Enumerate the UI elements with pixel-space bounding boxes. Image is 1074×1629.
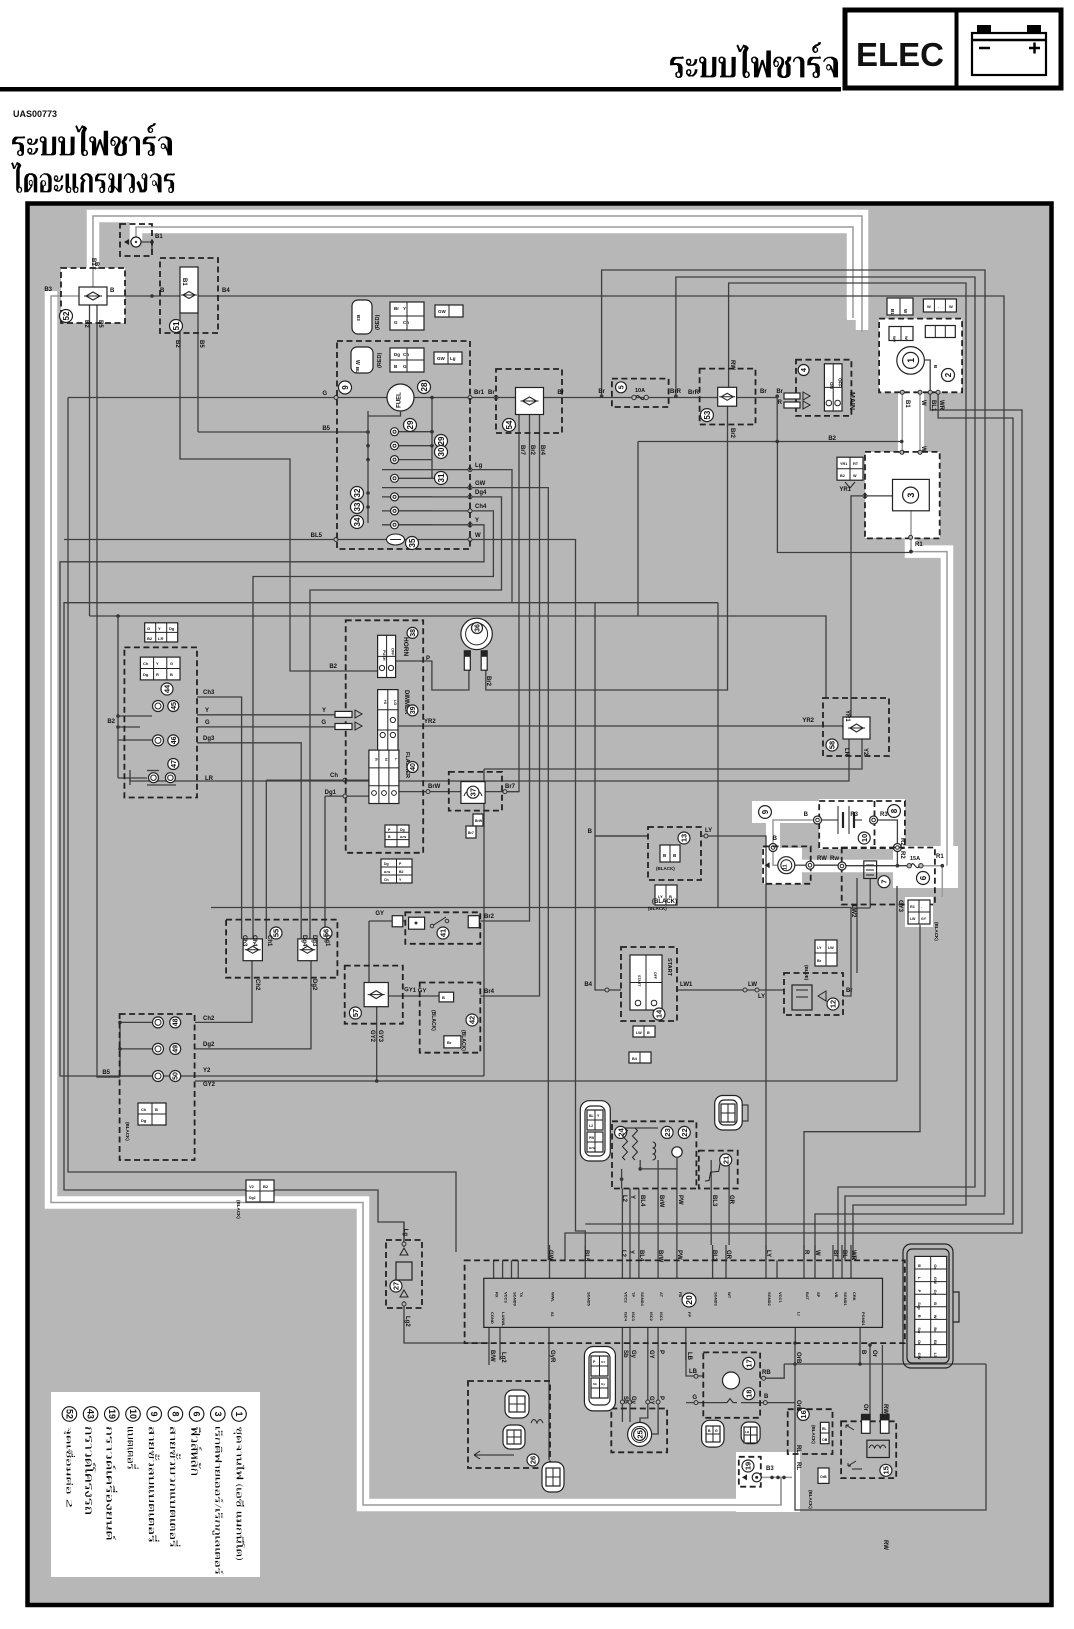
svg-text:OFF: OFF — [391, 648, 395, 656]
svg-text:Ch: Ch — [141, 1107, 147, 1112]
wire RW starter — [795, 864, 806, 866]
wire fuel senders to bus — [399, 431, 432, 433]
svg-text:BL4: BL4 — [639, 1195, 645, 1207]
svg-text:R1: R1 — [936, 854, 944, 860]
battery icon - mark — [979, 47, 990, 50]
wire 24 internals — [625, 1127, 658, 1129]
svg-text:B2: B2 — [399, 870, 404, 874]
svg-text:TP: TP — [631, 1292, 636, 1297]
wire GY2 bus — [195, 1080, 897, 1082]
svg-text:R: R — [803, 1250, 809, 1255]
meter lamp 45 — [153, 701, 164, 712]
wire fuel to senders — [368, 411, 401, 416]
sensor resistors 24 — [623, 1128, 628, 1160]
diode block 54 — [496, 369, 562, 433]
wire Br2 54 down — [480, 415, 529, 922]
oval connector BG — [702, 1420, 724, 1447]
svg-text:Br1: Br1 — [474, 390, 485, 396]
svg-text:BL: BL — [355, 367, 360, 373]
highlight patch: negative lead down — [766, 806, 780, 852]
wire B2 under 51 to horn — [180, 313, 378, 671]
svg-text:(BLACK): (BLACK) — [236, 1200, 241, 1219]
main switch grid — [824, 364, 842, 411]
svg-text:(BLACK): (BLACK) — [934, 922, 939, 941]
svg-text:Br2: Br2 — [729, 428, 735, 439]
wire relay7 down — [869, 879, 871, 909]
svg-text:Ch2: Ch2 — [203, 1016, 215, 1022]
svg-text:Dg: Dg — [141, 1118, 147, 1123]
wire W BL5 row — [64, 540, 585, 1261]
wire long y552 left — [777, 442, 911, 553]
wire B2 under 52 — [89, 305, 91, 616]
svg-text:Br: Br — [394, 306, 399, 311]
legend entry 19 (Thai) — [106, 1427, 117, 1540]
meter lamp 50 — [153, 1071, 164, 1082]
svg-text:B/W: B/W — [489, 1350, 495, 1362]
svg-text:PW: PW — [676, 1250, 682, 1260]
svg-text:38: 38 — [410, 629, 417, 637]
svg-text:GY3: GY3 — [377, 1030, 383, 1043]
battery icon body — [972, 33, 1046, 75]
svg-text:R1: R1 — [915, 542, 923, 548]
circled 8 — [888, 805, 901, 818]
wire G fuel gauge — [68, 397, 387, 399]
subtitle (Thai) ไดอะแกรมวงจร — [11, 162, 175, 193]
svg-text:52: 52 — [64, 1409, 74, 1419]
wire left staircase G — [68, 398, 456, 1253]
svg-text:Y2: Y2 — [862, 748, 868, 756]
coil WW 26 — [531, 1420, 543, 1424]
wire bus y907 — [211, 907, 851, 909]
svg-text:29: 29 — [406, 420, 415, 429]
svg-text:R2: R2 — [899, 851, 905, 859]
ring terminal R3 — [870, 816, 878, 824]
svg-text:Ch: Ch — [384, 878, 389, 882]
svg-text:WT: WT — [727, 1292, 732, 1299]
svg-text:(RED): (RED) — [377, 353, 383, 368]
fuel meter 25 — [628, 1422, 652, 1446]
circled 9 meter — [339, 381, 352, 394]
svg-text:20: 20 — [684, 1295, 694, 1305]
junction 52 box — [61, 268, 125, 323]
wire G dimmer — [197, 726, 335, 728]
svg-text:23: 23 — [663, 1128, 672, 1136]
svg-text:Br: Br — [933, 1327, 938, 1332]
svg-text:51: 51 — [172, 321, 181, 330]
svg-text:Y: Y — [158, 626, 161, 631]
wire B5 fuel — [198, 431, 368, 433]
svg-text:GW: GW — [475, 481, 486, 487]
relay 15 arrows — [846, 1425, 854, 1430]
svg-text:G: G — [715, 1429, 718, 1433]
svg-text:Gy: Gy — [933, 1290, 938, 1296]
svg-text:GY2: GY2 — [369, 1030, 375, 1043]
svg-text:54: 54 — [505, 420, 514, 429]
top connector small — [435, 305, 463, 317]
legend entry 8 (Thai) — [170, 1427, 181, 1547]
connector below 14 — [633, 1026, 655, 1037]
wire OrB LI column — [795, 1343, 986, 1510]
fuel gauge — [387, 384, 414, 411]
wire GY3 57 down — [376, 1007, 378, 1081]
meter connector grid — [390, 348, 424, 372]
relay box 16 — [788, 1409, 833, 1454]
highlight trace: second top line — [136, 227, 853, 318]
circled 9 battery lead — [759, 806, 772, 819]
wire B1 magneto down — [901, 392, 903, 452]
turn switch assy 44 box — [124, 647, 197, 797]
svg-text:SGND4: SGND4 — [640, 1292, 645, 1307]
svg-text:L2: L2 — [620, 1250, 626, 1258]
svg-text:GY3: GY3 — [897, 900, 903, 913]
svg-text:GY: GY — [648, 1350, 654, 1359]
svg-text:Y: Y — [322, 708, 326, 714]
passing switch 41 box — [405, 912, 480, 944]
wire riser x601 to right bus — [602, 270, 985, 1260]
svg-text:Br7: Br7 — [468, 831, 474, 835]
wire Y dimmer — [197, 714, 335, 716]
svg-text:YR1: YR1 — [840, 462, 847, 466]
flasher switch grid — [369, 750, 399, 803]
horn terminals — [464, 651, 470, 670]
wire WR magneto — [585, 392, 1013, 1224]
svg-text:29: 29 — [437, 436, 446, 445]
meter lamp 49 — [153, 1043, 164, 1054]
svg-text:25: 25 — [635, 1430, 644, 1438]
svg-text:Lg: Lg — [402, 1229, 408, 1237]
svg-text:RT: RT — [853, 462, 859, 466]
svg-text:BrW: BrW — [400, 835, 406, 839]
svg-text:W: W — [920, 400, 926, 406]
connector GyR oval — [542, 1462, 564, 1492]
svg-text:Br: Br — [447, 1040, 452, 1045]
connector below 48 grid1 — [138, 1103, 166, 1125]
svg-text:24: 24 — [616, 1127, 625, 1136]
wire Y fuel — [60, 525, 484, 1076]
highlight patch: junction 52 box — [61, 268, 125, 323]
svg-text:(BLACK): (BLACK) — [656, 866, 675, 871]
svg-text:WY: WY — [892, 336, 897, 343]
svg-text:BrW: BrW — [589, 1146, 595, 1150]
wire B2 into regulator — [638, 441, 902, 443]
svg-text:WWL: WWL — [551, 1292, 556, 1303]
wire B row 1364 — [784, 1363, 986, 1365]
svg-text:Or: Or — [871, 1350, 877, 1358]
ring terminal B frame — [769, 844, 777, 852]
svg-text:B3: B3 — [44, 287, 52, 293]
svg-text:Lg: Lg — [475, 463, 483, 469]
magneto connector WRWL — [925, 326, 955, 338]
svg-text:Gy: Gy — [601, 1382, 605, 1386]
magneto connector WL — [923, 299, 956, 312]
wire Br main bus — [414, 397, 777, 399]
svg-text:28: 28 — [420, 382, 429, 391]
wire ECU bottom pins — [488, 1327, 490, 1343]
svg-text:Gy: Gy — [630, 1396, 636, 1405]
svg-text:W: W — [927, 304, 931, 309]
svg-text:WR: WR — [850, 1250, 856, 1261]
svg-text:Br2: Br2 — [485, 676, 491, 687]
svg-text:G: G — [394, 320, 398, 325]
svg-text:Br: Br — [832, 1250, 838, 1257]
svg-text:GW: GW — [437, 356, 446, 361]
svg-text:B: B — [588, 829, 593, 835]
svg-text:PGND1: PGND1 — [861, 1312, 866, 1327]
legend entry 9 (Thai) — [149, 1427, 160, 1542]
AC magneto 1 — [897, 347, 925, 375]
svg-text:MAIN: MAIN — [848, 392, 855, 410]
diode block 57 box — [345, 966, 403, 1024]
svg-text:G: G — [170, 661, 173, 666]
magneto connector WYW — [889, 327, 913, 341]
svg-text:BrW: BrW — [428, 784, 441, 790]
svg-text:57: 57 — [351, 1009, 360, 1017]
svg-text:B: B — [442, 995, 445, 1000]
svg-text:3: 3 — [213, 1411, 223, 1416]
svg-text:2: 2 — [944, 372, 953, 377]
wire RB 17 — [760, 1364, 784, 1378]
wire bus y616 — [90, 616, 827, 698]
svg-text:36: 36 — [475, 624, 482, 632]
svg-text:BL5: BL5 — [583, 1250, 589, 1262]
highlight trace: R1 down from regulator — [911, 538, 947, 866]
svg-text:B: B — [773, 836, 778, 842]
svg-text:W: W — [354, 360, 360, 365]
svg-text:5: 5 — [619, 385, 626, 389]
meter lamps 47 — [149, 773, 159, 783]
svg-text:G: G — [403, 364, 407, 369]
ring terminal RW1 — [806, 861, 814, 869]
wire Dg2 — [195, 961, 311, 1049]
wire battery negative B — [773, 820, 813, 843]
svg-text:L2: L2 — [589, 1124, 593, 1128]
svg-text:B3: B3 — [356, 315, 361, 321]
svg-text:40: 40 — [410, 763, 417, 771]
svg-text:B4: B4 — [222, 288, 230, 294]
circled 51 — [170, 320, 183, 333]
wire B1 52-51 — [107, 295, 180, 297]
ecu 20 box — [465, 1260, 905, 1343]
horn switch grid — [378, 635, 396, 677]
svg-text:Ch3: Ch3 — [241, 935, 247, 947]
wire Lg 27 top — [403, 1222, 405, 1247]
wire Br fuse5 segment — [600, 394, 604, 398]
wire Br 12 right — [843, 908, 851, 997]
svg-text:Sb: Sb — [622, 1350, 628, 1358]
wire LR Y2 58 down — [203, 739, 849, 781]
svg-text:W: W — [853, 474, 857, 478]
svg-text:02: 02 — [550, 1312, 555, 1317]
dimmer switch grid — [378, 690, 398, 751]
svg-text:8: 8 — [170, 1411, 180, 1416]
wire R3-R2 — [878, 820, 897, 843]
circled 44 — [161, 683, 173, 695]
highlight patch: above box 2 — [847, 240, 865, 320]
svg-text:R: R — [778, 400, 783, 406]
svg-text:FUEL: FUEL — [397, 392, 403, 408]
svg-text:31: 31 — [437, 473, 446, 482]
svg-text:18: 18 — [744, 1390, 753, 1398]
svg-text:B1: B1 — [890, 309, 895, 315]
wire B4 start — [595, 836, 621, 990]
wire 24 pins down — [621, 1189, 623, 1246]
diode 55 — [243, 939, 262, 961]
starter motor 11 box — [763, 846, 811, 883]
svg-text:GW: GW — [547, 1250, 553, 1261]
battery icon + mark — [1029, 47, 1040, 50]
wire YR1 — [851, 496, 893, 717]
diode 56 — [298, 939, 317, 961]
svg-text:8: 8 — [890, 808, 899, 813]
circled 31 — [435, 472, 448, 485]
wire LY 13 to ECU — [701, 836, 766, 1260]
connector LY B 13 — [655, 885, 677, 905]
wire R1 to R — [941, 866, 943, 897]
relay 15 terminals — [862, 1414, 871, 1433]
wire 25 motor leads — [621, 1402, 623, 1422]
svg-text:B2: B2 — [840, 474, 845, 478]
svg-text:34: 34 — [353, 517, 362, 526]
circled 33 — [351, 501, 364, 514]
svg-text:Br7: Br7 — [505, 784, 516, 790]
wire Lg — [64, 470, 512, 1247]
circled 32 — [351, 487, 364, 500]
svg-text:Br: Br — [817, 959, 822, 963]
svg-text:R3: R3 — [850, 812, 858, 818]
svg-text:GW: GW — [917, 1353, 922, 1360]
wire riser x676 to right bus — [676, 277, 975, 1260]
svg-text:N: N — [384, 758, 388, 761]
svg-text:LB: LB — [689, 1369, 698, 1375]
highlight trace: battery row — [766, 860, 947, 873]
svg-text:B: B — [933, 1302, 938, 1305]
svg-text:(BLACK): (BLACK) — [808, 1490, 813, 1509]
svg-text:Ch4: Ch4 — [251, 935, 257, 947]
legend entry 10 (Thai) — [127, 1427, 138, 1469]
svg-text:WR: WR — [938, 400, 944, 411]
svg-text:RW: RW — [817, 856, 827, 862]
svg-text:RX: RX — [495, 1292, 500, 1298]
highlight trace: B1/W from magneto down — [898, 390, 924, 454]
svg-text:(BLACK): (BLACK) — [811, 1425, 816, 1444]
svg-text:GR: GR — [728, 1195, 734, 1205]
wire YR2 58 out — [842, 726, 844, 728]
svg-text:B2: B2 — [147, 636, 153, 641]
main fuse 15A — [907, 864, 911, 868]
ELEC / battery header box — [845, 10, 1061, 88]
wire P horn — [396, 661, 469, 690]
svg-text:Dg: Dg — [143, 672, 149, 677]
wire Br7 37 right — [485, 791, 519, 793]
svg-text:YR2: YR2 — [802, 718, 814, 724]
svg-text:(BLACK): (BLACK) — [648, 906, 667, 911]
svg-text:19: 19 — [744, 1462, 753, 1470]
svg-text:30: 30 — [437, 447, 446, 456]
magneto B wire internal — [924, 360, 930, 392]
svg-text:1: 1 — [906, 358, 916, 363]
svg-text:YR2: YR2 — [424, 719, 436, 725]
svg-text:P: P — [426, 656, 430, 662]
svg-text:START: START — [637, 975, 641, 987]
svg-text:LW: LW — [910, 917, 916, 921]
svg-text:Sw: Sw — [917, 1327, 922, 1334]
wire B3 (52 to left edge, highlighted) — [51, 296, 781, 1505]
svg-text:Sup: Sup — [917, 1302, 922, 1310]
svg-text:10: 10 — [128, 1409, 138, 1419]
wire Dg3 — [197, 743, 301, 939]
svg-text:LI: LI — [796, 1312, 801, 1316]
svg-text:FB: FB — [678, 1292, 683, 1297]
svg-text:GY: GY — [921, 917, 927, 921]
svg-text:6: 6 — [192, 1411, 202, 1416]
svg-text:17: 17 — [744, 1359, 753, 1367]
main fuse 6 box — [842, 848, 935, 905]
svg-text:R3: R3 — [880, 812, 888, 818]
svg-text:LY: LY — [765, 1250, 771, 1257]
svg-text:Br: Br — [488, 390, 495, 396]
svg-text:P: P — [917, 1290, 922, 1293]
highlight patch: AC magneto box 2 — [879, 319, 962, 393]
svg-text:B: B — [804, 812, 809, 818]
wire B to 13 box — [595, 603, 648, 836]
circled 28 — [418, 381, 431, 394]
connector W/BL meter — [351, 347, 373, 373]
44 connector grid — [140, 657, 180, 680]
diode block 55 56 box — [226, 920, 337, 978]
wire ECU top feeds — [549, 1245, 551, 1260]
svg-text:LY: LY — [817, 946, 822, 950]
svg-text:GyR: GyR — [549, 1350, 555, 1363]
ground symbol 26 box — [468, 1381, 550, 1468]
svg-text:TX: TX — [519, 1292, 524, 1297]
svg-text:W: W — [904, 336, 909, 340]
svg-text:GW: GW — [438, 309, 447, 314]
svg-text:RW: RW — [882, 1540, 888, 1550]
wire Lg2 27 bottom — [403, 1301, 405, 1308]
dimmer contacts — [335, 711, 352, 717]
circled 30 — [435, 446, 448, 459]
svg-text:BL3: BL3 — [711, 1195, 717, 1207]
wire GY 41 — [369, 920, 405, 922]
sensor box 21 — [699, 1151, 738, 1189]
svg-text:15: 15 — [882, 1466, 891, 1474]
svg-text:LR: LR — [843, 748, 849, 757]
wire G 18 — [686, 1402, 723, 1404]
svg-text:W: W — [475, 533, 481, 539]
highlight patch: starter motor area — [762, 848, 802, 884]
wire BrW flasher-37 — [399, 791, 461, 793]
svg-text:LW: LW — [636, 1031, 642, 1035]
connector BLUE 12 — [815, 940, 837, 966]
svg-text:48: 48 — [173, 1018, 180, 1026]
svg-text:22: 22 — [680, 1128, 689, 1136]
svg-text:L3: L3 — [933, 1353, 938, 1358]
main switch 4 box — [796, 360, 851, 416]
main switch contacts — [784, 393, 800, 399]
svg-text:Ch: Ch — [330, 773, 338, 779]
svg-text:Dg4: Dg4 — [301, 935, 307, 947]
svg-text:SGND2: SGND2 — [767, 1292, 772, 1307]
svg-text:BrW: BrW — [658, 1195, 664, 1208]
sensor box 24 — [612, 1121, 696, 1188]
wire Dg1 flasher — [325, 795, 369, 797]
svg-text:B2: B2 — [107, 719, 115, 725]
wire ECU top pins — [493, 1260, 495, 1278]
highlight patch: main fuse area — [893, 846, 958, 888]
legend entry 3 (Thai) — [212, 1427, 223, 1574]
svg-text:G: G — [205, 720, 210, 726]
connector R1 LW — [908, 900, 930, 924]
